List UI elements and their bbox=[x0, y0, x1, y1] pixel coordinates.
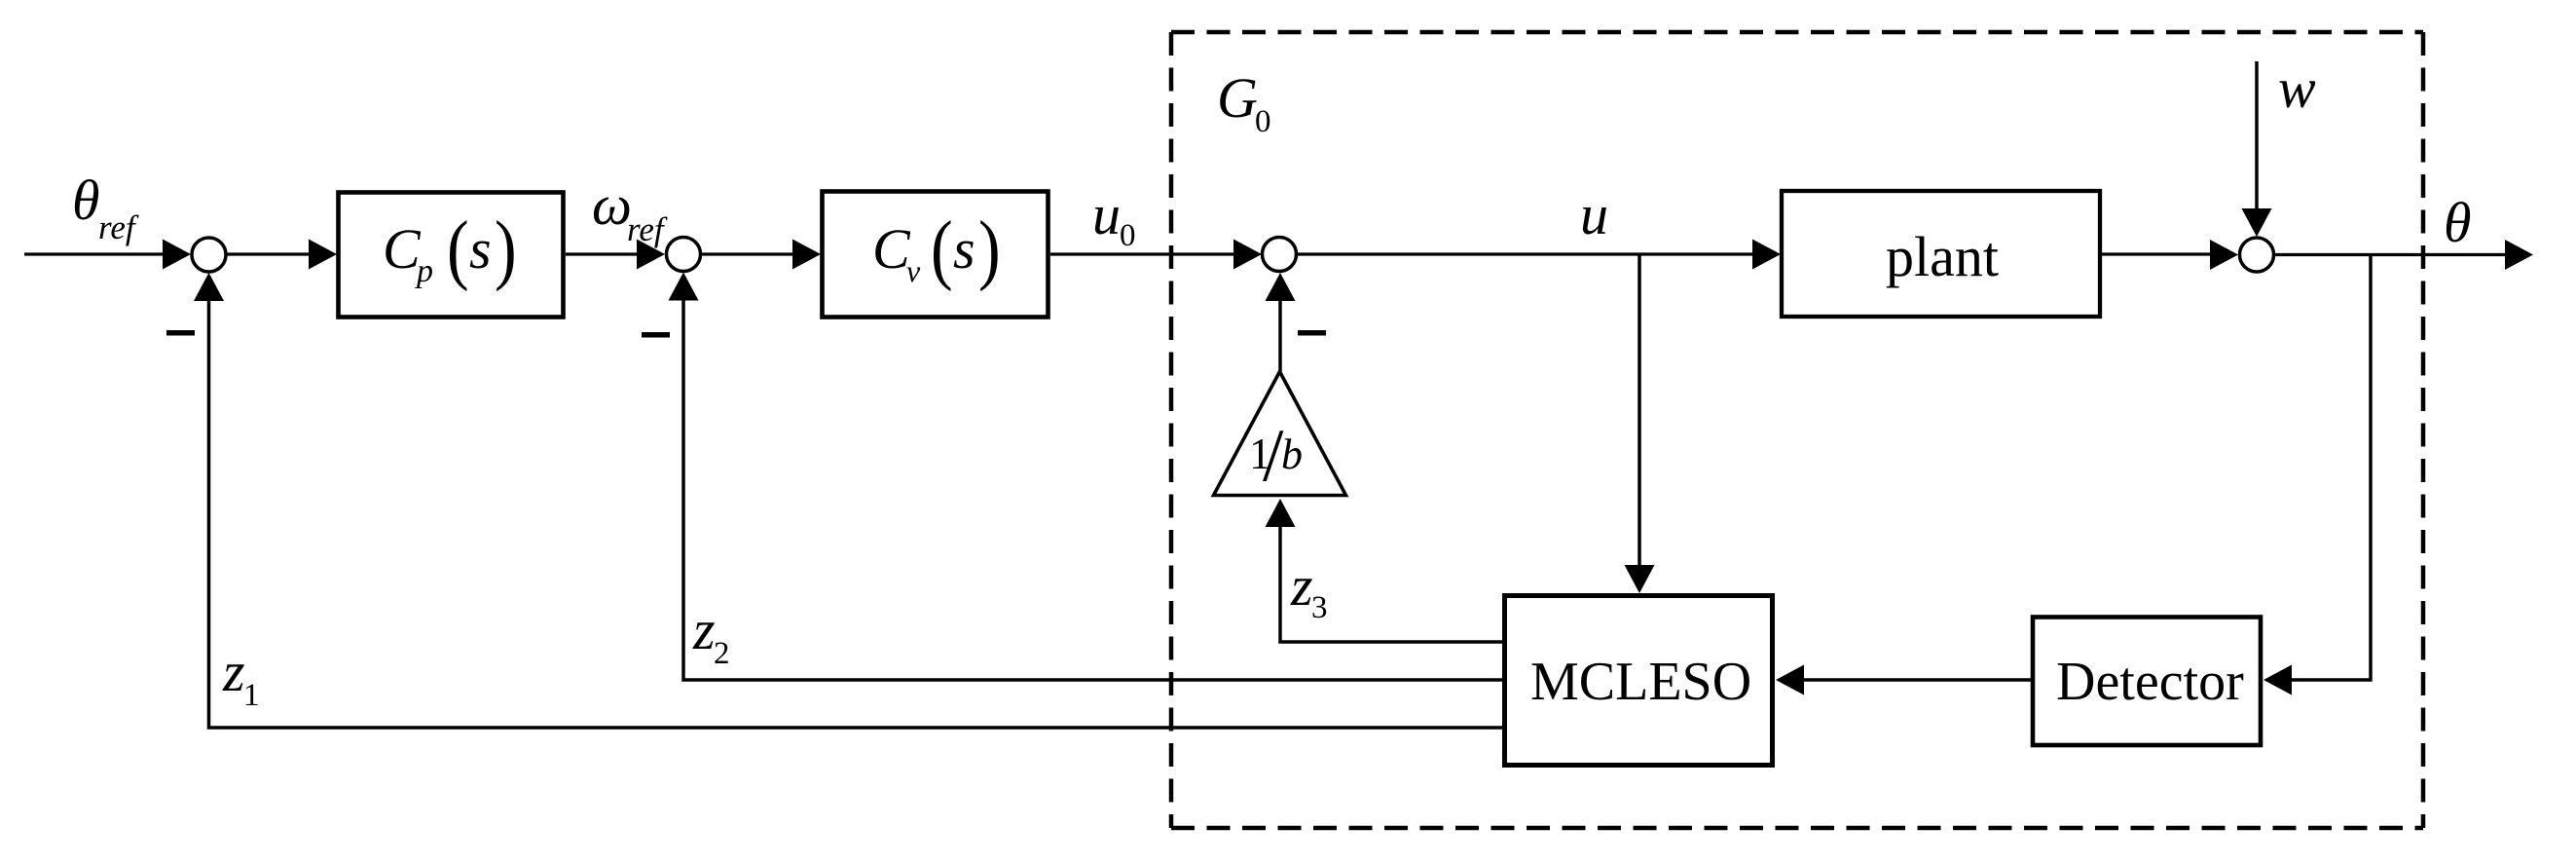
svg-text:u: u bbox=[1092, 183, 1121, 246]
svg-text:p: p bbox=[415, 253, 433, 289]
minus sign at S1 bbox=[166, 330, 195, 336]
svg-text:Detector: Detector bbox=[2056, 652, 2244, 712]
minus sign at S3 bbox=[1298, 330, 1326, 336]
svg-text:b: b bbox=[1281, 431, 1303, 478]
svg-text:s: s bbox=[953, 217, 975, 281]
node u0 label bbox=[1092, 183, 1136, 253]
node omega_ref label bbox=[592, 173, 668, 248]
svg-text:(: ( bbox=[931, 206, 953, 292]
summing junction S4 bbox=[2240, 238, 2274, 272]
wire w disturbance input bbox=[2255, 61, 2259, 210]
block Cv(s) bbox=[823, 192, 1049, 318]
arrowhead u into MCLESO bbox=[1625, 565, 1655, 593]
dashed boundary G0 box bbox=[1171, 32, 2423, 828]
node z1 label bbox=[222, 640, 260, 713]
node G0 label bbox=[1217, 66, 1271, 139]
svg-text:u: u bbox=[1580, 183, 1608, 246]
arrowhead into Detector bbox=[2263, 665, 2292, 695]
wire plant to S4 bbox=[2102, 252, 2212, 255]
svg-text:G: G bbox=[1217, 66, 1258, 130]
summing junction S1 bbox=[192, 238, 226, 272]
arrowhead into Cp bbox=[309, 240, 337, 270]
block Detector bbox=[2033, 618, 2261, 746]
minus sign at S2 bbox=[642, 332, 670, 338]
block Cp(s) label bbox=[383, 206, 517, 292]
svg-text:): ) bbox=[978, 206, 1001, 292]
block MCLESO bbox=[1505, 596, 1773, 766]
svg-text:z: z bbox=[1290, 554, 1313, 618]
arrowhead into S3 from below bbox=[1266, 273, 1296, 301]
svg-text:plant: plant bbox=[1886, 225, 1999, 288]
svg-text:ω: ω bbox=[592, 173, 632, 237]
svg-text:s: s bbox=[469, 217, 492, 281]
node z3 label bbox=[1290, 554, 1328, 625]
wire Cp to S2 bbox=[566, 252, 639, 255]
svg-text:MCLESO: MCLESO bbox=[1530, 652, 1751, 712]
arrowhead z1 into S1 bbox=[194, 273, 224, 301]
svg-text:z: z bbox=[692, 598, 716, 661]
svg-text:0: 0 bbox=[1120, 218, 1136, 253]
svg-text:C: C bbox=[872, 217, 911, 281]
gain triangle 1/b label bbox=[1249, 413, 1303, 497]
wire theta feedback down from output bbox=[2290, 255, 2371, 681]
svg-text:0: 0 bbox=[1255, 104, 1271, 139]
wire z3 from MCLESO to gain triangle bbox=[1280, 524, 1502, 642]
wire u branch down to MCLESO bbox=[1638, 254, 1641, 568]
node z2 label bbox=[692, 598, 730, 671]
svg-text:): ) bbox=[495, 206, 517, 292]
svg-text:2: 2 bbox=[714, 636, 730, 671]
summing junction S2 bbox=[667, 238, 701, 272]
arrowhead into Cv bbox=[792, 240, 821, 270]
svg-text:(: ( bbox=[447, 206, 469, 292]
wire u0 from Cv to S3 bbox=[1050, 252, 1235, 255]
wire theta_ref input bbox=[24, 252, 166, 255]
arrowhead into MCLESO right side bbox=[1776, 665, 1804, 695]
arrowhead into summing junction S2 bbox=[637, 240, 665, 270]
block Cp(s) bbox=[339, 193, 564, 318]
svg-text:θ: θ bbox=[2444, 191, 2472, 254]
svg-text:θ: θ bbox=[72, 169, 100, 232]
summing junction S3 bbox=[1263, 238, 1297, 272]
svg-text:v: v bbox=[906, 253, 921, 288]
svg-text:ref: ref bbox=[627, 210, 668, 248]
svg-text:3: 3 bbox=[1311, 590, 1328, 625]
arrowhead z2 into S2 bbox=[669, 273, 699, 301]
wire z1 from MCLESO to S1 bbox=[209, 300, 1503, 728]
block plant bbox=[1782, 191, 2100, 317]
wire u from S3 to plant bbox=[1297, 252, 1754, 255]
wire S2 to Cv bbox=[701, 252, 794, 255]
arrowhead into summing junction S1 bbox=[163, 240, 191, 270]
wire gain triangle to S3 bbox=[1278, 298, 1282, 371]
block Cv(s) label bbox=[872, 206, 1001, 292]
arrowhead theta output bbox=[2505, 240, 2533, 270]
wire Detector to MCLESO bbox=[1802, 678, 2031, 682]
arrowhead into summing junction S4 bbox=[2210, 240, 2238, 270]
wire z2 from MCLESO to S2 bbox=[683, 299, 1502, 680]
svg-text:C: C bbox=[383, 217, 422, 281]
arrowhead into plant bbox=[1752, 240, 1781, 270]
node theta_ref label bbox=[72, 169, 139, 246]
arrowhead into summing junction S3 bbox=[1233, 240, 1262, 270]
gain triangle 1/b bbox=[1214, 372, 1346, 496]
svg-text:ref: ref bbox=[98, 208, 139, 246]
svg-text:z: z bbox=[222, 640, 245, 703]
arrowhead w into S4 bbox=[2242, 208, 2272, 237]
svg-text:w: w bbox=[2278, 56, 2316, 120]
wire theta output bbox=[2274, 253, 2507, 256]
arrowhead z3 into gain triangle bbox=[1266, 499, 1296, 527]
svg-text:1: 1 bbox=[243, 678, 260, 713]
wire S1 to Cp bbox=[227, 252, 310, 255]
